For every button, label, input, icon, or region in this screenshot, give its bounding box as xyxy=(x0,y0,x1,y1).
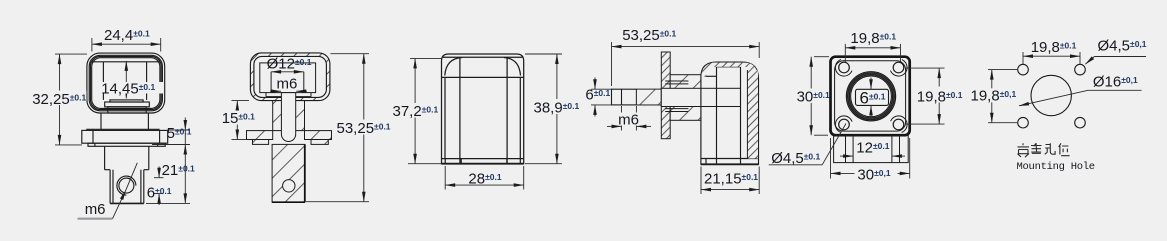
corner holes xyxy=(839,62,850,73)
dim 6 ext xyxy=(591,88,612,90)
cap hatch right band xyxy=(748,70,758,159)
head face top line xyxy=(92,61,160,63)
button head mid shell xyxy=(89,55,162,111)
cap inner corner left xyxy=(445,58,462,76)
dim 5 ext lines xyxy=(168,129,190,131)
hole TL xyxy=(1018,64,1029,75)
shaft Ø12 lines xyxy=(270,72,272,93)
neck xyxy=(100,113,102,130)
head ring hatched xyxy=(250,53,330,101)
left tab lip xyxy=(253,140,269,145)
dim 30 bottom line xyxy=(831,172,910,174)
neck shaft hatched xyxy=(273,101,305,131)
body below flange xyxy=(104,146,106,169)
dim 30 left ext xyxy=(814,56,829,58)
dim texts view1 xyxy=(31,27,196,218)
hole BR xyxy=(1075,117,1086,128)
dim 30 bottom ext xyxy=(830,138,832,179)
dim 38,9 ext xyxy=(525,53,562,55)
big circle Ø16 xyxy=(1031,75,1071,115)
head face sides xyxy=(102,62,104,100)
svg-text:Mounting Hole: Mounting Hole xyxy=(1017,161,1095,173)
seat lines xyxy=(266,96,311,98)
m6 leader xyxy=(113,190,126,219)
dim 24,4 line xyxy=(92,43,161,45)
flange top lip xyxy=(86,128,159,130)
dim 21,15 line xyxy=(701,189,759,191)
cap inner wall left xyxy=(716,67,718,165)
cap footer band xyxy=(442,158,524,160)
hub castellation bottom xyxy=(665,108,688,110)
dim 15 ext xyxy=(232,100,250,102)
cap top band line xyxy=(443,56,522,58)
dim 6 arrows xyxy=(594,78,596,90)
seat plate low xyxy=(108,107,146,113)
dim 19,8 v6 top line xyxy=(1023,55,1080,57)
head face box xyxy=(260,63,316,93)
cap wall inner lines xyxy=(444,77,446,158)
corner hole bosses xyxy=(835,59,852,76)
seat plate small xyxy=(110,100,143,102)
dim 6 arrows xyxy=(158,167,160,178)
dim 53,25 top line xyxy=(612,46,760,48)
square flange outer xyxy=(831,57,910,136)
stem hatched xyxy=(272,144,305,202)
central ring band xyxy=(849,74,894,119)
svg-text:m6: m6 xyxy=(85,201,106,218)
dim m6 arrows xyxy=(270,90,281,92)
dim 5 arrows xyxy=(184,118,186,131)
hub castellation top xyxy=(665,80,688,82)
stem thick edges xyxy=(304,144,306,202)
right tab xyxy=(305,131,332,140)
cap skirt line xyxy=(442,76,524,78)
leader Ø16 xyxy=(1019,90,1088,106)
dim 53,25 line xyxy=(363,54,365,202)
dim 12 arrows xyxy=(840,155,853,157)
hole TR xyxy=(1075,64,1086,75)
chinese caption 安装孔位 xyxy=(1018,143,1070,157)
seat plate mid xyxy=(105,102,150,107)
dim 19,8 v6 left ext xyxy=(988,69,1017,71)
leader Ø4,5 v6 xyxy=(1085,57,1094,65)
cap rim line left xyxy=(701,75,717,77)
cap bottom edge thick xyxy=(442,163,524,165)
dim 19,8 right line xyxy=(938,68,940,124)
flange plate hatched xyxy=(661,52,670,139)
dim 21 line xyxy=(184,145,186,204)
cap hatch top band xyxy=(712,63,744,67)
stem square hole xyxy=(621,89,623,105)
thread arc around hole xyxy=(117,176,136,195)
cap bottom thick xyxy=(701,163,759,165)
hub hatched xyxy=(670,75,701,121)
dim 37,2 line xyxy=(414,58,416,163)
cap outline view4 xyxy=(701,62,759,164)
view2 dims xyxy=(232,54,370,202)
dim 19,8 right ext xyxy=(906,67,945,69)
stem hole circle xyxy=(283,180,295,192)
stem hatch part xyxy=(637,90,661,105)
hole BL xyxy=(1018,117,1029,128)
dim 21 ext xyxy=(146,202,190,204)
dim 32,25 ext lines xyxy=(55,53,87,55)
flange bottom lip xyxy=(88,143,165,146)
cap footer line xyxy=(701,158,759,160)
dim m6 ext xyxy=(621,106,623,131)
dim Ø12 line xyxy=(271,71,304,73)
button head corner shell xyxy=(90,56,161,109)
dim 6 ticks xyxy=(154,177,164,179)
dim 6 slot arrows xyxy=(870,78,872,90)
right tab lip xyxy=(311,140,328,145)
dim 19,8 v6 left line xyxy=(991,70,993,123)
central outer circle xyxy=(846,72,895,121)
button head inner shell xyxy=(92,58,160,109)
threaded stem xyxy=(109,170,111,204)
leader Ø4,5 xyxy=(822,124,846,165)
dim 15 line xyxy=(236,101,238,140)
dim 24,4 ext lines xyxy=(91,38,93,52)
cap outer outline xyxy=(442,54,524,164)
plunger band xyxy=(661,88,740,106)
cap inner top xyxy=(717,66,741,68)
dim 28 line xyxy=(445,184,524,186)
square flange inner xyxy=(835,61,906,131)
button head outer shell xyxy=(87,53,165,113)
cap hatch corner band left xyxy=(701,63,716,77)
dim 38,9 line xyxy=(556,54,558,164)
view1 dimensions xyxy=(55,38,190,219)
left tab xyxy=(247,131,273,140)
cross hole circle xyxy=(119,178,134,193)
dim 19,8 v6 top ext xyxy=(1022,52,1024,64)
dim 32,25 line xyxy=(59,54,61,145)
dim 30 left line xyxy=(810,57,812,136)
head inner xyxy=(254,56,327,97)
dim 19,8 top line xyxy=(845,47,900,49)
central slot xyxy=(856,89,889,105)
svg-text:m6: m6 xyxy=(277,76,298,93)
dim 53,25 ext xyxy=(331,53,370,55)
cap inner verticals xyxy=(459,58,461,164)
cap hatch corner band right xyxy=(745,63,759,79)
dim 53,25 top ext xyxy=(611,42,613,86)
stem left xyxy=(612,89,662,105)
dim 37,2 ext xyxy=(410,57,443,59)
cap back wall inner xyxy=(747,70,749,159)
dim 19,8 top ext xyxy=(844,44,846,62)
bottom block xyxy=(834,135,909,162)
dim 21,15 ext xyxy=(700,167,702,195)
dim 14,45 line xyxy=(125,61,127,99)
flange body xyxy=(82,130,168,143)
dim m6 arrows xyxy=(607,125,622,127)
cap inner corner right xyxy=(504,58,521,76)
cap inner wall right xyxy=(740,67,742,165)
svg-text:m6: m6 xyxy=(618,111,639,128)
dim 28 ext xyxy=(444,166,446,190)
m6 blind hole xyxy=(281,93,295,142)
